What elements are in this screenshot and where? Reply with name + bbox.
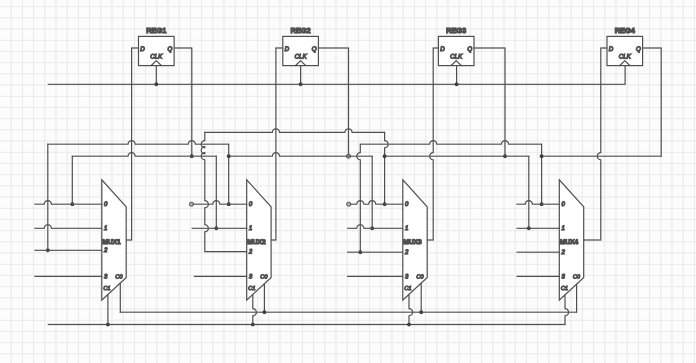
- wire REG4 Q down to node Q4: [643, 48, 662, 156]
- register REG3: [438, 36, 474, 65]
- svg-text:Q: Q: [636, 46, 641, 53]
- svg-text:CLK: CLK: [295, 53, 308, 60]
- junction C0 at MUX2: [263, 310, 267, 314]
- wire node Q2 drop to MUX3 input 1: [371, 156, 373, 228]
- wire MUX1 C1 riser: [107, 295, 109, 325]
- wire MUX4 C0 riser: [576, 284, 578, 312]
- svg-text:D: D: [285, 46, 290, 53]
- wire MUX3 input 3 stub: [348, 275, 403, 277]
- wire REG3 CLK drop: [456, 66, 458, 85]
- wire REG2 Q down to node Q2: [318, 48, 348, 154]
- wire REG2 CLK drop: [300, 66, 302, 85]
- junction MUX3 input 1: [370, 226, 374, 230]
- svg-text:C1: C1: [103, 286, 110, 292]
- svg-text:MUX4: MUX4: [560, 239, 579, 246]
- svg-text:REG2: REG2: [291, 26, 311, 35]
- wire MUX1 C0 riser: [119, 283, 121, 312]
- endpoint MUX3 input 0 stub: [347, 202, 351, 206]
- junction C0 at MUX3: [419, 310, 423, 314]
- svg-text:2: 2: [561, 250, 566, 256]
- register REG4: [607, 36, 643, 65]
- junction MUX2 input 0: [227, 202, 231, 206]
- wire MUX4 input 0 stub: [517, 201, 559, 205]
- svg-text:CLK: CLK: [450, 53, 463, 60]
- svg-text:CLK: CLK: [150, 53, 163, 60]
- wire MUX1 input 1 stub: [35, 225, 102, 229]
- svg-text:C0: C0: [260, 275, 268, 281]
- junction MUX3 input 2: [358, 250, 362, 254]
- svg-text:C0: C0: [573, 275, 581, 281]
- wire MUX2 input 3 stub: [194, 275, 246, 277]
- wire node Q3 drop to MUX2 input 2: [201, 132, 246, 251]
- multiplexer MUX1: [102, 180, 126, 300]
- junction Q3 row: [503, 154, 507, 158]
- junction MUX4 input 0: [540, 202, 544, 206]
- svg-text:MUX1: MUX1: [102, 239, 121, 246]
- wire clock bus CLK: [48, 66, 625, 85]
- wire MUX2 input 0 stub: [193, 201, 246, 205]
- svg-text:1: 1: [562, 226, 565, 232]
- wire MUX3 input 2 stub: [348, 251, 403, 253]
- multiplexer MUX3: [403, 180, 427, 300]
- svg-text:REG3: REG3: [446, 26, 466, 35]
- svg-text:D: D: [440, 46, 445, 53]
- svg-text:C1: C1: [404, 286, 411, 292]
- junction MUX1 input 2: [46, 248, 50, 252]
- wire node Q3 drop to MUX4 input 1: [528, 156, 530, 228]
- wire MUX1 input 2 stub: [35, 249, 102, 251]
- svg-text:C1: C1: [248, 286, 255, 292]
- endpoint MUX2 input 0 stub: [190, 202, 194, 206]
- svg-text:C1: C1: [561, 286, 568, 292]
- register REG2: [283, 36, 319, 65]
- wire MUX2 C1 riser: [253, 295, 257, 325]
- svg-text:Q: Q: [312, 46, 317, 53]
- junction C1 at MUX2: [251, 323, 255, 327]
- wire row Q3: [385, 155, 529, 157]
- wire select bus C1: [48, 324, 565, 326]
- wire row Q2: [229, 153, 373, 157]
- junction clock at REG3: [455, 82, 459, 86]
- wire row Q1: [72, 153, 216, 157]
- multiplexer MUX4: [559, 180, 583, 300]
- junction Q1 row: [190, 154, 194, 158]
- register REG1: [139, 36, 175, 65]
- wire MUX4 output to REG4 D: [584, 48, 607, 240]
- svg-text:MUX3: MUX3: [403, 239, 422, 246]
- wire select bus C0: [120, 311, 576, 313]
- svg-text:1: 1: [405, 226, 408, 232]
- wire MUX4 input 3 stub: [517, 275, 559, 277]
- wire MUX4 C1 riser: [565, 295, 569, 325]
- svg-text:Q: Q: [467, 46, 472, 53]
- wire node Q1 drop to MUX2 input 1: [215, 156, 217, 228]
- svg-text:D: D: [609, 46, 614, 53]
- wire MUX4 input 2 stub: [517, 251, 559, 253]
- wire node Q2 drop to MUX2 input 0: [228, 144, 230, 204]
- wire row B1 node Q2: [48, 141, 229, 145]
- endpoint REG2 Q on node Q2: [347, 154, 351, 158]
- wire MUX4 input 1 stub: [517, 227, 559, 229]
- wire node Q4 drop to MUX3 input 2: [357, 144, 361, 252]
- svg-text:C0: C0: [416, 275, 424, 281]
- svg-text:1: 1: [249, 226, 252, 232]
- wire MUX3 input 1 stub: [348, 225, 403, 229]
- wire MUX1 input 3 stub: [35, 275, 102, 277]
- svg-text:1: 1: [104, 226, 107, 232]
- junction clock at REG1: [154, 82, 158, 86]
- wire node Q2 drop to MUX1 input 2: [47, 144, 49, 250]
- svg-text:MUX2: MUX2: [247, 239, 266, 246]
- wire node Q4 drop to MUX4 input 0: [541, 144, 543, 204]
- junction MUX3 input 0: [383, 202, 387, 206]
- wire REG1 CLK drop: [155, 66, 157, 85]
- wire MUX2 C0 riser: [263, 284, 265, 312]
- wire MUX3 input 0 stub: [351, 201, 403, 205]
- junction C1 at MUX1: [106, 323, 110, 327]
- svg-text:2: 2: [404, 250, 409, 256]
- wire MUX3 C0 riser: [420, 283, 422, 312]
- wire MUX2 output to REG2 D: [271, 48, 283, 240]
- svg-text:D: D: [140, 46, 145, 53]
- svg-text:2: 2: [103, 248, 108, 254]
- junction node Q2 row: [227, 154, 231, 158]
- svg-text:REG1: REG1: [146, 26, 166, 35]
- wire MUX2 input 1 stub: [192, 227, 247, 229]
- junction node Q3 row: [383, 154, 387, 158]
- svg-text:2: 2: [248, 250, 253, 256]
- wire row A node Q3: [205, 129, 385, 133]
- svg-text:CLK: CLK: [619, 53, 632, 60]
- svg-text:C0: C0: [115, 275, 123, 281]
- wire REG3 Q down to node Q3: [474, 48, 505, 156]
- junction MUX2 input 1: [214, 226, 218, 230]
- wire node Q1 drop to MUX1 input 0: [71, 156, 73, 204]
- wire MUX1 input 0 stub: [35, 201, 102, 205]
- svg-text:Q: Q: [168, 46, 173, 53]
- wire row B2 node Q4: [360, 141, 541, 145]
- wire node Q3 drop to MUX3 input 0: [385, 132, 389, 204]
- multiplexer MUX2: [247, 180, 271, 300]
- wire REG1 Q down to node Q1: [174, 48, 192, 156]
- wire row Q4: [542, 155, 662, 157]
- wire MUX1 output to REG1 D: [126, 48, 138, 240]
- junction MUX1 input 0: [70, 202, 74, 206]
- wire MUX3 output to REG3 D: [427, 48, 438, 240]
- svg-text:REG4: REG4: [615, 26, 636, 35]
- junction MUX4 input 1: [527, 226, 531, 230]
- junction C1 at MUX3: [407, 323, 411, 327]
- junction clock at REG2: [299, 82, 303, 86]
- wire MUX3 C1 riser: [409, 294, 413, 324]
- junction node Q4 row: [540, 154, 544, 158]
